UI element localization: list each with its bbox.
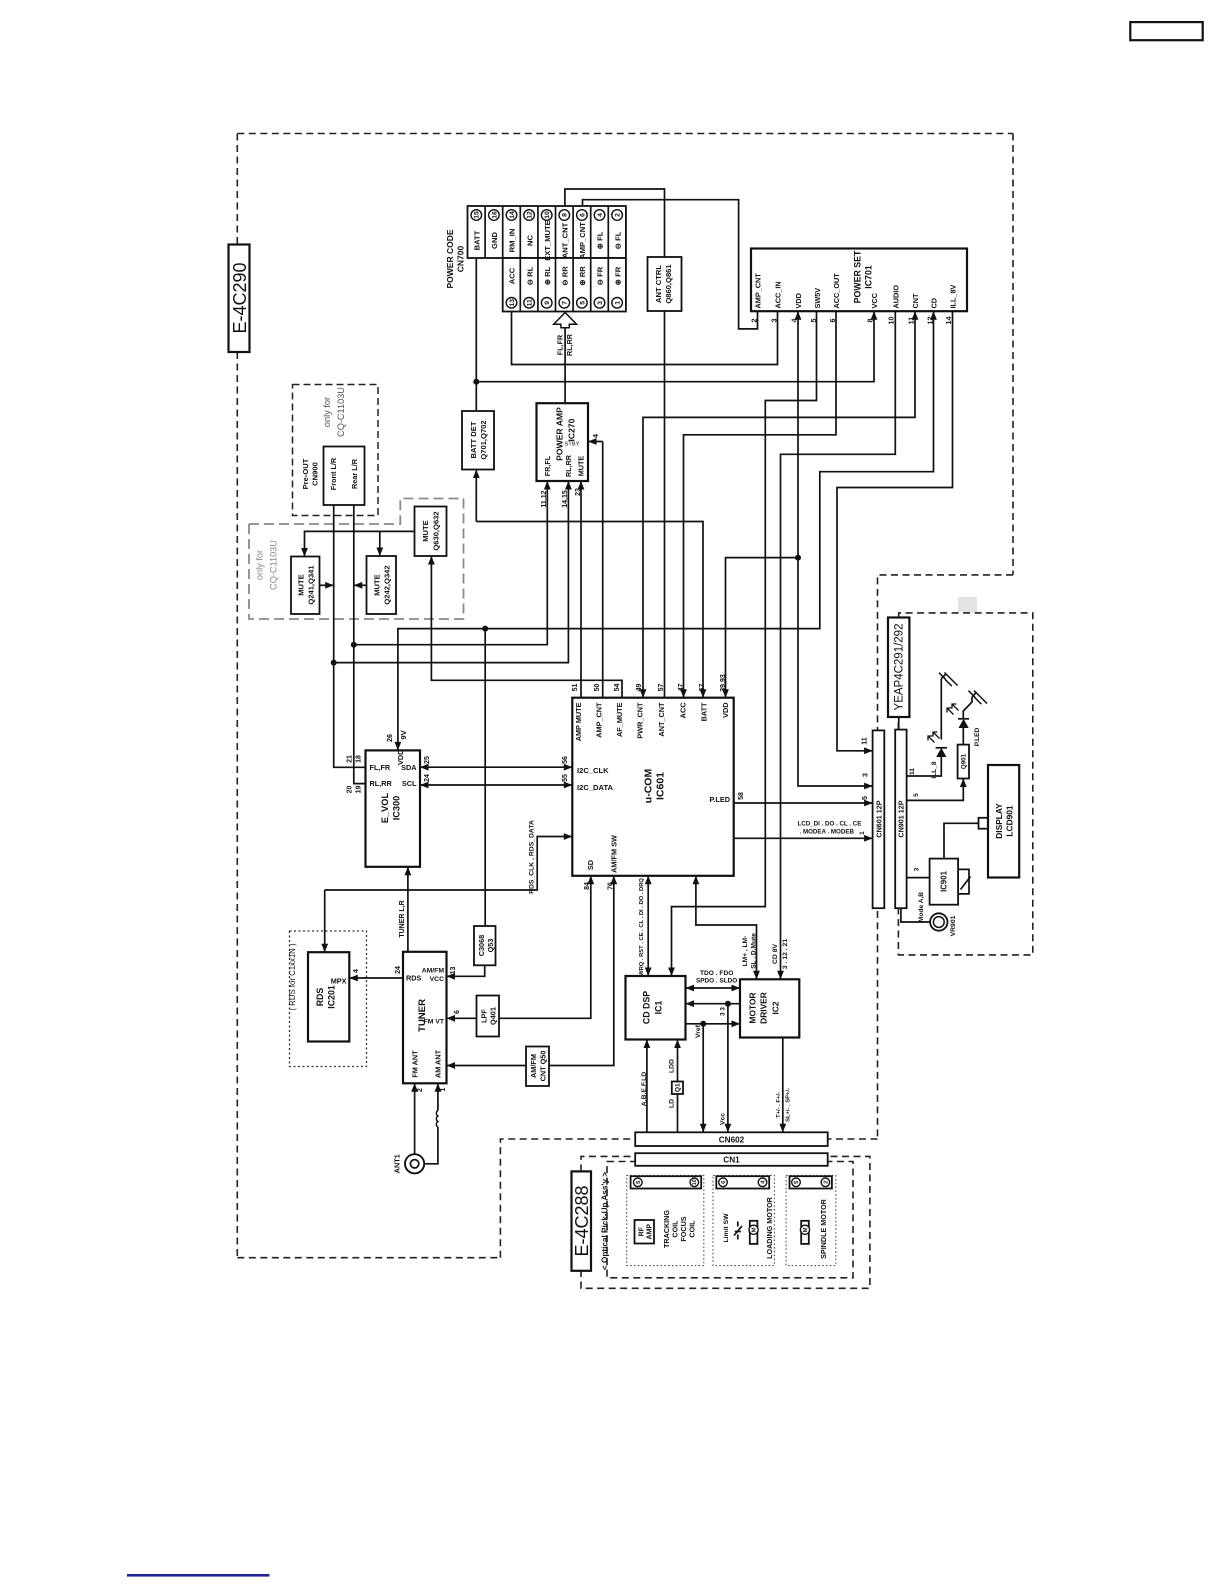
wire Front L/R to E_VOL FL_FR xyxy=(334,505,366,767)
svg-text:8: 8 xyxy=(562,213,569,217)
svg-text:CD 8V: CD 8V xyxy=(772,944,779,964)
svg-text:26: 26 xyxy=(385,734,394,742)
wire POWER AMP in FR,FL 11,12 xyxy=(354,481,548,645)
svg-text:E-4C290: E-4C290 xyxy=(230,262,250,333)
svg-text:2: 2 xyxy=(750,319,759,323)
svg-text:AMP_CNT: AMP_CNT xyxy=(754,273,763,309)
svg-text:IC601: IC601 xyxy=(655,772,667,800)
svg-text:ACC: ACC xyxy=(508,267,517,284)
wire Mode A,B to VR901 xyxy=(901,908,930,922)
motor LOADING MOTOR xyxy=(750,1221,758,1244)
svg-text:FM VT: FM VT xyxy=(424,1018,445,1025)
svg-text:10: 10 xyxy=(692,1179,698,1185)
ic RDS IC201 xyxy=(308,952,349,1041)
wire ANT1 to TUNER AM ANT via coil xyxy=(424,1127,438,1164)
svg-text:3 3: 3 3 xyxy=(720,1007,727,1016)
svg-text:FR,FL: FR,FL xyxy=(543,455,552,476)
svg-text:SPINDLE MOTOR: SPINDLE MOTOR xyxy=(819,1198,828,1259)
svg-text:RDS: RDS xyxy=(406,974,422,983)
frame E-4C290 boundary (left edge) xyxy=(236,134,238,1258)
wire ACC pin13 to IC701 ACC_IN pin3 xyxy=(512,311,778,364)
connector CN700 top row pins xyxy=(471,210,482,221)
ic POWER SET IC701 xyxy=(751,249,967,312)
motor SPINDLE MOTOR xyxy=(801,1221,809,1244)
svg-text:SPDO . SLDO: SPDO . SLDO xyxy=(696,978,737,985)
frame display board boundary YEAP4C291/292 xyxy=(898,613,1032,955)
transistor MUTE Q241,Q341 xyxy=(291,557,320,615)
svg-text:AM/FM: AM/FM xyxy=(422,967,445,974)
group pickup coils dotted box xyxy=(627,1175,704,1265)
ic CD DSP IC1 xyxy=(626,976,686,1040)
frame E-4C290 boundary (right step) xyxy=(878,575,1014,1139)
wire Vcc net CD DSP MOTOR DRIVER CN602 xyxy=(686,1003,741,1005)
svg-text:AUDIO: AUDIO xyxy=(891,285,900,309)
wire POWER AMP STBY 4 to IC601 AMP_CNT 50 xyxy=(588,441,603,443)
svg-text:ANT_CNT: ANT_CNT xyxy=(560,222,569,258)
svg-text:MUTE: MUTE xyxy=(373,574,382,596)
svg-text:LM+ , LM-: LM+ , LM- xyxy=(742,936,749,967)
svg-text:6: 6 xyxy=(579,213,586,217)
wire IC601 to MOTOR DRIVER LM xyxy=(696,876,757,980)
group spindle motor dotted box xyxy=(786,1175,836,1265)
svg-text:VDD: VDD xyxy=(721,703,730,718)
svg-text:CN900: CN900 xyxy=(311,462,320,486)
label E-4C290 box xyxy=(229,245,250,353)
svg-text:CNT Q50: CNT Q50 xyxy=(539,1051,548,1082)
svg-text:SDA: SDA xyxy=(401,763,417,772)
wire mute control to Q241 Q242 xyxy=(305,531,415,556)
wire IC701 pin6 ACC_OUT to IC601 ACC xyxy=(684,311,837,698)
svg-text:AMP_CNT: AMP_CNT xyxy=(595,702,604,738)
svg-text:Limit SW: Limit SW xyxy=(723,1213,730,1243)
svg-text:25: 25 xyxy=(424,756,431,764)
svg-text:5: 5 xyxy=(913,793,920,797)
svg-text:11: 11 xyxy=(909,768,916,775)
wire RDS_CLK RDS_DATA bus xyxy=(325,837,573,891)
svg-text:FM ANT: FM ANT xyxy=(410,1050,419,1078)
svg-text:11: 11 xyxy=(861,737,868,745)
svg-text:3: 3 xyxy=(770,319,779,323)
svg-text:CD: CD xyxy=(930,298,939,309)
svg-text:57: 57 xyxy=(658,684,665,692)
transistor Q1 laser driver xyxy=(677,1040,679,1082)
wire YEAP stub to CN901 xyxy=(898,717,900,730)
svg-text:IC701: IC701 xyxy=(864,265,874,289)
wire POWER AMP in RL,RR 14,15 xyxy=(334,481,569,663)
svg-text:u-COM: u-COM xyxy=(643,769,655,804)
svg-text:ANT1: ANT1 xyxy=(393,1154,402,1173)
svg-text:CQ-C1103U: CQ-C1103U xyxy=(336,387,346,437)
wire MOTOR DRIVER to CN602 xyxy=(782,1038,784,1133)
wire speaker lines to POWER AMP xyxy=(564,328,566,403)
svg-text:SL+/- . SP+/-: SL+/- . SP+/- xyxy=(786,1088,792,1122)
svg-text:AF_MUTE: AF_MUTE xyxy=(615,702,624,737)
svg-text:only for: only for xyxy=(255,550,265,580)
encoder VR901 xyxy=(930,913,947,930)
svg-text:Front L/R: Front L/R xyxy=(329,457,338,490)
svg-text:54: 54 xyxy=(614,684,621,692)
svg-text:WRQ . RST . CE . CL . DI . DO: WRQ . RST . CE . CL . DI . DO . DRQ xyxy=(639,878,645,976)
wire IC901 to CN901 pin3 xyxy=(907,877,930,879)
svg-text:⊖ RL: ⊖ RL xyxy=(525,266,534,285)
frame RDS-option dotted box xyxy=(290,931,367,1067)
wire Vref net xyxy=(686,1023,741,1025)
svg-text:24: 24 xyxy=(424,774,431,782)
svg-text:TUNER: TUNER xyxy=(417,999,428,1032)
svg-text:55: 55 xyxy=(562,774,569,782)
svg-text:6: 6 xyxy=(454,1010,461,1014)
mark blue rule bottom-left xyxy=(127,1574,270,1577)
frame optical assy inner boundary xyxy=(607,1162,853,1278)
frame display board boundary (left segment) xyxy=(897,717,899,730)
svg-text:FL,FR: FL,FR xyxy=(370,763,391,772)
svg-text:SL , D.Mute: SL , D.Mute xyxy=(750,933,757,969)
ic DISPLAY LCD901 xyxy=(988,765,1019,878)
svg-text:DISPLAY: DISPLAY xyxy=(994,803,1004,839)
svg-text:Mode A,B: Mode A,B xyxy=(918,892,925,922)
svg-text:. MODEA . MODEB: . MODEA . MODEB xyxy=(800,829,855,836)
wire 9V branch to C3068 xyxy=(484,629,486,926)
svg-text:RM_IN: RM_IN xyxy=(508,229,517,253)
wire TUNER L,R to E_VOL xyxy=(407,867,409,952)
wire LCD bus to CN601 xyxy=(734,837,873,839)
wire ANT_CNT pin8 to ANT CTRL xyxy=(565,189,665,257)
wire IC701 pin4 VDD net xyxy=(798,311,873,786)
svg-text:IC901: IC901 xyxy=(940,870,949,891)
svg-text:7: 7 xyxy=(562,301,569,305)
transistor MUTE Q630,Q632 xyxy=(415,507,447,557)
wire ILL_8 LED chain xyxy=(907,757,942,776)
ic E_VOL IC300 xyxy=(366,750,421,866)
connector CN901 12P xyxy=(895,730,906,909)
transistor MUTE Q242,Q342 xyxy=(367,556,397,614)
wire ANT1 to TUNER FM ANT xyxy=(414,1083,416,1154)
connector Pre-OUT CN900 xyxy=(324,447,365,506)
svg-text:MUTE: MUTE xyxy=(577,456,586,477)
svg-text:Q701,Q702: Q701,Q702 xyxy=(479,420,488,459)
svg-text:M: M xyxy=(803,1227,809,1232)
svg-text:only for: only for xyxy=(322,397,332,427)
svg-text:VR901: VR901 xyxy=(950,915,957,936)
frame optical assy outer boundary E-4C288 xyxy=(581,1156,870,1288)
ground P.LED xyxy=(969,691,988,705)
svg-text:AM ANT: AM ANT xyxy=(433,1049,442,1078)
group loading motor dotted box xyxy=(713,1175,774,1265)
svg-text:IC201: IC201 xyxy=(327,985,337,1009)
svg-text:DRIVER: DRIVER xyxy=(758,992,768,1024)
transistor ANT CTRL Q860,Q861 xyxy=(648,257,682,311)
label E-4C288 box xyxy=(572,1171,592,1270)
connector pickup strip 2 xyxy=(716,1176,769,1188)
svg-text:19: 19 xyxy=(355,786,362,794)
wire IC701 pin5 SW5V to CD DSP xyxy=(672,311,817,976)
transistor LPF Q401 xyxy=(477,996,500,1037)
wire IC701 pin12 CD 9V bus xyxy=(398,311,934,750)
svg-text:CQ-C1103U: CQ-C1103U xyxy=(269,540,279,590)
mark gray scan smudge xyxy=(958,597,977,612)
wire A.B.E.F.LD to CN602 xyxy=(646,1040,648,1133)
svg-text:3: 3 xyxy=(862,773,869,777)
svg-text:4: 4 xyxy=(353,969,360,973)
svg-text:⊕ RL: ⊕ RL xyxy=(543,266,552,285)
ic TUNER xyxy=(403,952,447,1084)
svg-text:LPF: LPF xyxy=(480,1009,489,1023)
wire POWER AMP MUTE 23 to IC601 AMP MUTE 51 xyxy=(580,481,582,698)
svg-text:Q401: Q401 xyxy=(489,1007,498,1025)
svg-text:RL,RR: RL,RR xyxy=(564,454,573,477)
wire P.LED to CN601 pin5 xyxy=(734,802,873,804)
svg-text:LDD: LDD xyxy=(668,1059,675,1073)
svg-text:Q241,Q341: Q241,Q341 xyxy=(307,565,316,605)
svg-text:16: 16 xyxy=(491,211,498,219)
svg-text:12: 12 xyxy=(526,211,533,219)
box empty title block top-right xyxy=(1130,22,1202,40)
wire AMP_CNT pin6 to IC701 pin2 xyxy=(583,200,758,329)
svg-text:⊖ FR: ⊖ FR xyxy=(596,266,605,285)
svg-text:4: 4 xyxy=(593,434,600,438)
svg-text:ANT_CNT: ANT_CNT xyxy=(657,702,666,737)
svg-text:1: 1 xyxy=(440,1087,447,1091)
svg-text:A.B.E.F.LD: A.B.E.F.LD xyxy=(641,1072,648,1106)
svg-text:⊖ FL: ⊖ FL xyxy=(613,231,622,249)
connector CN602 xyxy=(635,1132,828,1146)
label YEAP4C291/292 box xyxy=(888,618,909,718)
svg-text:ILL_8: ILL_8 xyxy=(931,761,938,779)
svg-text:MOTOR: MOTOR xyxy=(747,992,757,1023)
wire IC601 SD to LPF to TUNER FM VT xyxy=(499,876,591,1019)
svg-text:LCD901: LCD901 xyxy=(1004,805,1014,837)
svg-text:9: 9 xyxy=(544,301,551,305)
frame E-4C290 boundary (right edge) xyxy=(1012,134,1014,575)
wire BATT net to IC701 VCC pin8 xyxy=(476,311,874,382)
svg-text:LCD_DI . DO . CL . CE: LCD_DI . DO . CL . CE xyxy=(798,821,862,828)
svg-text:⊖ RR: ⊖ RR xyxy=(560,266,569,286)
svg-text:13: 13 xyxy=(450,967,457,975)
svg-text:CD DSP: CD DSP xyxy=(642,991,652,1024)
wire IC901 to DISPLAY xyxy=(944,823,979,858)
svg-text:Q242,Q342: Q242,Q342 xyxy=(383,565,392,604)
svg-text:11,12: 11,12 xyxy=(541,490,548,507)
wire ANT CTRL to IC601 ANT_CNT xyxy=(664,311,666,698)
svg-text:56: 56 xyxy=(562,756,569,764)
svg-text:SD: SD xyxy=(586,860,595,870)
wire Rear L/R to E_VOL RL_RR xyxy=(354,505,366,784)
svg-text:GND: GND xyxy=(490,232,499,249)
svg-text:T+/- . F+/-: T+/- . F+/- xyxy=(776,1092,782,1118)
svg-text:CN602: CN602 xyxy=(719,1135,745,1144)
wire TUNER RDS to MPX xyxy=(349,977,403,979)
connector CN1 xyxy=(635,1153,828,1166)
svg-text:BATT: BATT xyxy=(472,230,481,250)
svg-text:10: 10 xyxy=(544,211,551,219)
svg-text:3 . 12 . 21: 3 . 12 . 21 xyxy=(782,939,789,969)
led P.LED xyxy=(962,728,964,745)
ground ILL_8 xyxy=(941,674,946,679)
svg-text:AM/FM SW: AM/FM SW xyxy=(610,835,619,873)
svg-text:14: 14 xyxy=(509,211,516,219)
svg-text:< Optical Pick-Up Ass'y >: < Optical Pick-Up Ass'y > xyxy=(600,1172,609,1270)
svg-text:AMP_CNT: AMP_CNT xyxy=(578,222,587,259)
svg-text:67: 67 xyxy=(699,684,706,692)
ic IC901 xyxy=(930,859,959,905)
transistor BATT DET Q701,Q702 xyxy=(462,411,494,470)
svg-text:Q860,Q861: Q860,Q861 xyxy=(664,264,673,304)
svg-text:ACC: ACC xyxy=(679,702,688,719)
svg-text:24: 24 xyxy=(395,966,402,974)
svg-text:49: 49 xyxy=(636,684,643,692)
svg-text:CN601 12P: CN601 12P xyxy=(874,800,883,837)
connector pickup strip 3 xyxy=(790,1176,832,1188)
svg-text:21: 21 xyxy=(346,755,353,763)
svg-text:2: 2 xyxy=(823,1181,829,1184)
wire Q241 out to front line xyxy=(320,584,334,586)
svg-text:POWER SET: POWER SET xyxy=(853,250,863,303)
svg-text:( RDS for C1xx1N ): ( RDS for C1xx1N ) xyxy=(288,943,297,1011)
svg-text:1: 1 xyxy=(614,301,621,305)
wire IC701 pin14 ILL_8V to CN601 xyxy=(837,311,953,751)
svg-text:51: 51 xyxy=(572,684,579,692)
svg-text:20: 20 xyxy=(346,786,353,794)
svg-text:AMP MUTE: AMP MUTE xyxy=(574,702,583,741)
svg-text:STBY: STBY xyxy=(564,442,579,448)
antenna ANT1 xyxy=(405,1154,424,1173)
svg-text:CN901 12P: CN901 12P xyxy=(897,800,906,837)
svg-text:8: 8 xyxy=(866,319,875,323)
svg-text:BATT DET: BATT DET xyxy=(469,421,478,458)
svg-text:RL,RR: RL,RR xyxy=(370,779,393,788)
svg-text:P.LED: P.LED xyxy=(709,795,730,804)
svg-text:Q630,Q632: Q630,Q632 xyxy=(432,511,441,550)
wire BATT DET output to IC601 BATT xyxy=(475,470,477,522)
svg-text:9V: 9V xyxy=(399,729,408,739)
svg-text:10: 10 xyxy=(887,317,896,325)
node DISPLAY input pad xyxy=(979,818,989,829)
svg-text:ACC_IN: ACC_IN xyxy=(774,281,783,308)
svg-text:Q53: Q53 xyxy=(486,939,495,953)
svg-text:18: 18 xyxy=(355,755,362,763)
svg-text:58: 58 xyxy=(738,792,745,800)
svg-text:AM/FM: AM/FM xyxy=(529,1054,538,1078)
svg-text:1: 1 xyxy=(859,831,866,835)
svg-text:RL,RR: RL,RR xyxy=(565,333,574,356)
svg-text:13: 13 xyxy=(509,299,516,307)
svg-text:LOADING MOTOR: LOADING MOTOR xyxy=(765,1196,774,1259)
wire I2C SDA to IC601 I2C_CLK xyxy=(420,766,572,768)
svg-text:IC300: IC300 xyxy=(392,796,402,821)
svg-text:P.LED: P.LED xyxy=(974,727,981,746)
svg-text:23: 23 xyxy=(575,488,582,496)
transistor AM/FM CNT Q50 xyxy=(526,1047,549,1087)
wire BATT pin15 down xyxy=(475,258,477,411)
wire AF_MUTE net Q630 to IC601 pin54 xyxy=(431,556,622,698)
transistor C3068 Q53 xyxy=(474,926,496,965)
frame E-4C290 boundary (top edge) xyxy=(237,133,1013,135)
svg-text:2: 2 xyxy=(417,1088,424,1092)
transistor Q901 xyxy=(958,745,969,779)
ic MOTOR DRIVER IC2 xyxy=(740,979,799,1037)
svg-text:⊕ FR: ⊕ FR xyxy=(613,266,622,285)
svg-text:E_VOL: E_VOL xyxy=(380,793,390,824)
svg-text:3: 3 xyxy=(913,867,920,871)
node speaker feed arrow FL,FR RL,RR xyxy=(554,313,577,328)
svg-text:MUTE: MUTE xyxy=(421,520,430,542)
svg-text:15: 15 xyxy=(474,211,481,219)
svg-text:ACC_OUT: ACC_OUT xyxy=(832,273,841,309)
wire CD-DSP control bus xyxy=(647,876,649,976)
ic POWER AMP IC270 xyxy=(537,403,589,481)
svg-text:IC1: IC1 xyxy=(654,1001,664,1015)
svg-text:14,15: 14,15 xyxy=(562,490,569,508)
svg-text:BATT: BATT xyxy=(700,702,709,721)
frame only-for-CQ-C1103U dashed box (Pre-OUT) xyxy=(293,385,379,516)
svg-text:VDD: VDD xyxy=(794,293,803,308)
ic RF AMP xyxy=(635,1220,655,1244)
svg-text:Vcc: Vcc xyxy=(719,1113,726,1125)
switch IC901 aux xyxy=(958,869,969,894)
svg-text:RDS: RDS xyxy=(315,988,325,1007)
svg-text:NC: NC xyxy=(525,235,534,246)
svg-text:39,93: 39,93 xyxy=(720,674,727,692)
svg-text:5: 5 xyxy=(862,796,869,800)
svg-text:CN1: CN1 xyxy=(723,1156,740,1165)
svg-text:C3068: C3068 xyxy=(477,935,486,957)
svg-text:IC2: IC2 xyxy=(770,1001,780,1014)
svg-text:2: 2 xyxy=(614,213,621,217)
svg-text:RDS_CLK , RDS_DATA: RDS_CLK , RDS_DATA xyxy=(528,820,535,894)
svg-text:YEAP4C291/292: YEAP4C291/292 xyxy=(894,624,906,711)
svg-text:MUTE: MUTE xyxy=(297,574,306,596)
svg-text:MPX: MPX xyxy=(331,977,347,986)
frame E-4C290 boundary (to CN602 right) xyxy=(827,1138,878,1140)
led ILL_8 xyxy=(936,748,946,757)
wire TDO FDO SPDO SLDO bus xyxy=(686,987,741,989)
connector CN700 bottom row pins xyxy=(506,298,517,309)
svg-text:PWR_CNT: PWR_CNT xyxy=(636,702,645,739)
wire bus to RDS IC201 xyxy=(324,890,326,952)
svg-text:EXT_MUTE: EXT_MUTE xyxy=(543,220,552,261)
svg-text:Q1: Q1 xyxy=(675,1083,682,1092)
svg-text:CNT: CNT xyxy=(911,293,920,309)
frame only-for-CQ-C1103U gray dashed region xyxy=(249,499,464,620)
svg-text:47: 47 xyxy=(678,684,685,692)
svg-text:IC270: IC270 xyxy=(567,418,577,441)
connector pickup strip 1 xyxy=(631,1176,702,1188)
svg-text:COIL: COIL xyxy=(688,1220,697,1238)
connector CN700 POWER CODE table xyxy=(468,206,626,258)
wire IC701 pin11 CNT to IC601 PWR_CNT xyxy=(643,311,915,698)
wire I2C SCL to IC601 I2C_DATA xyxy=(420,784,572,786)
svg-text:ILL_8V: ILL_8V xyxy=(949,284,958,308)
svg-text:ANT CTRL: ANT CTRL xyxy=(654,265,663,303)
svg-text:RF: RF xyxy=(638,1226,645,1236)
svg-text:11: 11 xyxy=(526,299,533,306)
svg-text:SW5V: SW5V xyxy=(813,288,822,309)
svg-text:FL,FR: FL,FR xyxy=(556,334,565,355)
svg-text:SCL: SCL xyxy=(402,779,417,788)
svg-text:Q901: Q901 xyxy=(960,753,967,769)
svg-text:4: 4 xyxy=(597,213,604,217)
frame E-4C290 boundary (bottom edge) xyxy=(237,1257,500,1259)
connector CN601 12P xyxy=(873,730,885,908)
svg-text:⊕ FL: ⊕ FL xyxy=(596,231,605,249)
svg-text:Pre-OUT: Pre-OUT xyxy=(301,458,310,489)
svg-text:TDO . FDO: TDO . FDO xyxy=(700,970,733,977)
frame E-4C290 boundary (bottom step) xyxy=(500,1139,635,1258)
svg-text:E-4C288: E-4C288 xyxy=(572,1185,592,1256)
wire P.LED chain xyxy=(907,779,964,801)
wire IC701 pin10 AUDIO to MOTOR DRIVER CD8V xyxy=(781,311,896,979)
svg-text:VCC: VCC xyxy=(430,976,444,983)
